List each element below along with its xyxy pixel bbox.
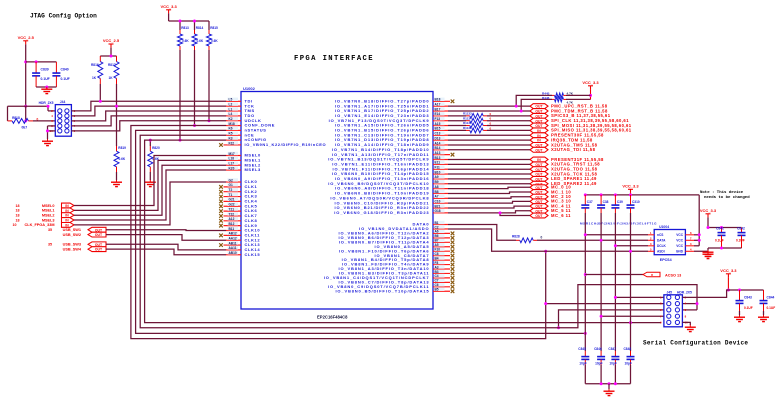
svg-text:A3: A3: [435, 265, 439, 269]
svg-text:0.1UF: 0.1UF: [767, 306, 776, 310]
svg-text:18: 18: [16, 204, 20, 208]
svg-text:DCLK: DCLK: [657, 244, 667, 248]
svg-text:VCC_3.3: VCC_3.3: [160, 4, 177, 9]
svg-text:C845: C845: [578, 347, 586, 351]
svg-text:B1: B1: [435, 221, 439, 225]
svg-text:B10: B10: [435, 170, 441, 174]
svg-text:R819: R819: [118, 146, 126, 150]
svg-text:R828: R828: [512, 234, 520, 238]
svg-text:A13: A13: [435, 151, 441, 155]
svg-text:4.7K: 4.7K: [567, 100, 574, 104]
svg-text:J45: J45: [667, 290, 673, 294]
svg-text:R818: R818: [12, 116, 20, 120]
svg-text:0E7: 0E7: [22, 126, 28, 130]
svg-text:B3: B3: [435, 270, 439, 274]
svg-text:C39: C39: [617, 200, 623, 204]
svg-text:MSEL2: MSEL2: [42, 214, 55, 218]
svg-text:X2UTAG_TDI 11,58: X2UTAG_TDI 11,58: [551, 147, 596, 152]
svg-text:B4: B4: [435, 256, 439, 260]
svg-text:0.1UF: 0.1UF: [736, 239, 745, 243]
svg-text:0.6K: 0.6K: [182, 39, 189, 43]
svg-text:Note : This device: Note : This device: [700, 190, 744, 195]
svg-text:R: R: [651, 273, 653, 277]
svg-text:F11: F11: [435, 166, 441, 170]
svg-text:B18: B18: [435, 98, 441, 102]
svg-text:C8: C8: [435, 252, 439, 256]
svg-text:35: 35: [48, 243, 52, 247]
svg-text:C840: C840: [61, 68, 69, 72]
svg-text:JTAG Config Option: JTAG Config Option: [30, 13, 97, 20]
svg-text:B21: B21: [435, 204, 441, 208]
svg-text:R816: R816: [91, 63, 99, 67]
svg-text:R445: R445: [542, 92, 550, 96]
svg-text:IO_VB9N1_K22/DIFFIO_R19/nCEO: IO_VB9N1_K22/DIFFIO_R19/nCEO: [245, 142, 327, 147]
svg-text:T2: T2: [229, 188, 233, 192]
svg-text:K3: K3: [229, 136, 233, 140]
svg-text:VCC_3.3: VCC_3.3: [700, 208, 717, 213]
svg-text:18: 18: [16, 214, 20, 218]
svg-text:Serial Configuration Device: Serial Configuration Device: [643, 340, 748, 347]
svg-text:B6: B6: [435, 234, 439, 238]
svg-text:C844: C844: [767, 296, 775, 300]
svg-text:C848: C848: [624, 347, 632, 351]
svg-text:10: 10: [13, 223, 17, 227]
svg-text:FPGA INTERFACE: FPGA INTERFACE: [294, 55, 374, 63]
svg-text:HDR_2X5: HDR_2X5: [677, 290, 692, 294]
svg-text:CLK_FPGA_33M: CLK_FPGA_33M: [25, 223, 55, 227]
svg-text:OUT: OUT: [95, 248, 103, 252]
svg-text:C10: C10: [435, 199, 441, 203]
svg-text:B13: B13: [435, 156, 441, 160]
svg-text:B5: B5: [435, 288, 439, 292]
svg-text:C4: C4: [435, 274, 439, 278]
svg-text:MSEL1: MSEL1: [42, 209, 55, 213]
svg-text:A7: A7: [435, 195, 439, 199]
svg-text:VCC: VCC: [676, 239, 683, 243]
svg-text:USB_SW2: USB_SW2: [63, 233, 81, 237]
svg-text:MC_6 11: MC_6 11: [551, 213, 571, 218]
svg-text:L18: L18: [229, 157, 235, 161]
svg-text:C2: C2: [435, 225, 439, 229]
svg-text:C841: C841: [716, 227, 724, 231]
svg-text:B8: B8: [435, 190, 439, 194]
svg-text:C842: C842: [737, 227, 745, 231]
svg-text:C6: C6: [435, 283, 439, 287]
svg-text:OUT: OUT: [95, 233, 103, 237]
svg-text:R820: R820: [152, 146, 160, 150]
svg-text:USB_SW3: USB_SW3: [63, 243, 81, 247]
svg-text:B17: B17: [435, 107, 441, 111]
svg-text:0: 0: [541, 235, 543, 239]
svg-text:nCS: nCS: [657, 233, 663, 237]
svg-text:HDR_2X5: HDR_2X5: [39, 101, 54, 105]
svg-text:B12: B12: [229, 222, 235, 226]
svg-text:D13: D13: [435, 136, 441, 140]
svg-text:EP2C16F484C8: EP2C16F484C8: [317, 315, 348, 320]
svg-text:C847: C847: [608, 347, 616, 351]
svg-text:R814: R814: [196, 26, 204, 30]
svg-text:G2: G2: [229, 178, 233, 182]
svg-text:MSEL0: MSEL0: [42, 204, 55, 208]
svg-text:B11: B11: [229, 227, 235, 231]
svg-text:OUT: OUT: [535, 148, 543, 152]
svg-text:J44: J44: [60, 100, 66, 104]
svg-text:0.1UF: 0.1UF: [744, 306, 753, 310]
svg-text:0.6K: 0.6K: [119, 157, 126, 161]
svg-text:AB12: AB12: [229, 232, 237, 236]
svg-text:10pF: 10pF: [625, 362, 632, 366]
svg-text:G21: G21: [229, 198, 235, 202]
svg-text:10pF: 10pF: [595, 362, 602, 366]
svg-text:1K: 1K: [109, 76, 114, 80]
svg-text:VCC_2.5: VCC_2.5: [18, 35, 35, 40]
svg-text:K5: K5: [229, 132, 233, 136]
svg-text:MSEL3: MSEL3: [245, 167, 262, 172]
svg-text:0.6K: 0.6K: [211, 39, 218, 43]
svg-text:C846: C846: [594, 347, 602, 351]
svg-text:IO_VB6N0_G18/DIFFIO_R3n/PADD23: IO_VB6N0_G18/DIFFIO_R3n/PADD23: [334, 210, 429, 215]
svg-text:0.1UF: 0.1UF: [715, 239, 724, 243]
svg-text:VCC: VCC: [676, 233, 683, 237]
svg-text:R1135: R1135: [463, 121, 472, 125]
svg-text:B9: B9: [435, 180, 439, 184]
svg-text:R1136: R1136: [463, 126, 472, 130]
svg-text:R1134: R1134: [463, 116, 472, 120]
svg-text:AB11: AB11: [229, 241, 237, 245]
svg-text:T22: T22: [229, 212, 235, 216]
svg-text:18: 18: [16, 218, 20, 222]
svg-text:R446: R446: [542, 96, 550, 100]
svg-text:OUT: OUT: [95, 243, 103, 247]
svg-text:U1002: U1002: [243, 86, 256, 91]
svg-text:A12: A12: [229, 217, 235, 221]
svg-text:A9: A9: [435, 175, 439, 179]
svg-text:ACSO 13: ACSO 13: [665, 273, 681, 277]
svg-text:T1: T1: [229, 193, 233, 197]
svg-text:EPCS4: EPCS4: [660, 258, 672, 262]
svg-text:MSEL3: MSEL3: [42, 218, 55, 222]
svg-text:F13: F13: [435, 117, 441, 121]
svg-text:B15: B15: [435, 127, 441, 131]
svg-text:F8: F8: [435, 261, 439, 265]
svg-text:A17: A17: [435, 102, 441, 106]
svg-text:G22: G22: [229, 203, 235, 207]
svg-text:A15: A15: [435, 122, 441, 126]
svg-text:35: 35: [48, 228, 52, 232]
svg-text:E14: E14: [435, 112, 441, 116]
svg-text:R813: R813: [181, 26, 189, 30]
svg-text:MSR1CH(BF(3N3/BF(3N3/BF(3EL9FT: MSR1CH(BF(3N3/BF(3N3/BF(3EL9FT1G: [580, 222, 657, 226]
svg-text:M17: M17: [229, 152, 235, 156]
svg-text:CLK15: CLK15: [245, 252, 261, 257]
svg-text:C839: C839: [41, 68, 49, 72]
svg-text:AB10: AB10: [229, 251, 237, 255]
svg-text:C843: C843: [744, 296, 752, 300]
svg-text:F10: F10: [435, 248, 441, 252]
svg-text:VCC_3.3: VCC_3.3: [720, 268, 737, 273]
svg-text:U1004: U1004: [659, 225, 669, 229]
svg-text:L2: L2: [229, 102, 233, 106]
svg-text:G18: G18: [435, 209, 441, 213]
svg-text:USB_SW1: USB_SW1: [63, 228, 81, 232]
svg-text:GND: GND: [676, 250, 684, 254]
svg-text:VCC_3.3: VCC_3.3: [622, 184, 639, 189]
svg-text:C7: C7: [435, 279, 439, 283]
svg-text:L4: L4: [229, 112, 233, 116]
svg-text:A5: A5: [435, 243, 439, 247]
svg-text:C38: C38: [603, 200, 609, 204]
svg-text:R1133: R1133: [463, 111, 472, 115]
svg-text:A6: A6: [435, 230, 439, 234]
svg-text:VCC_2.5: VCC_2.5: [103, 38, 120, 43]
svg-text:L5: L5: [229, 98, 233, 102]
svg-text:0.1UF: 0.1UF: [41, 77, 50, 81]
svg-text:C13: C13: [435, 132, 441, 136]
svg-text:AA11: AA11: [229, 246, 237, 250]
svg-text:K2: K2: [229, 117, 233, 121]
svg-text:C37: C37: [587, 200, 593, 204]
svg-text:needs to be changed: needs to be changed: [704, 195, 750, 200]
svg-text:18: 18: [16, 209, 20, 213]
svg-text:B7: B7: [435, 239, 439, 243]
svg-text:0.1UF: 0.1UF: [61, 77, 70, 81]
svg-text:VCC: VCC: [676, 244, 683, 248]
svg-text:DATA: DATA: [657, 239, 666, 243]
svg-text:4.7K: 4.7K: [567, 92, 574, 96]
svg-text:10pF: 10pF: [609, 362, 616, 366]
svg-text:10pF: 10pF: [579, 362, 586, 366]
svg-text:OUT: OUT: [535, 214, 543, 218]
svg-text:0.6K: 0.6K: [197, 39, 204, 43]
svg-text:OUT: OUT: [95, 228, 103, 232]
svg-text:R815: R815: [210, 26, 218, 30]
svg-text:VCC_3.3: VCC_3.3: [582, 80, 599, 85]
svg-text:F22: F22: [229, 141, 235, 145]
svg-text:C310: C310: [632, 200, 640, 204]
svg-text:L1: L1: [229, 107, 233, 111]
svg-text:IO_VB8N0_B5/DIFFIO_T10p/DATA15: IO_VB8N0_B5/DIFFIO_T10p/DATA15: [335, 288, 429, 293]
svg-text:T21: T21: [229, 207, 235, 211]
svg-text:1K: 1K: [92, 76, 97, 80]
svg-text:E11: E11: [435, 161, 441, 165]
svg-text:USB_SW4: USB_SW4: [63, 247, 82, 251]
svg-text:K20: K20: [229, 166, 235, 170]
svg-text:A8: A8: [435, 185, 439, 189]
svg-text:G1: G1: [229, 183, 233, 187]
svg-text:K6: K6: [229, 127, 233, 131]
svg-text:AA12: AA12: [229, 237, 237, 241]
svg-text:B14: B14: [435, 146, 441, 150]
svg-text:ASDI: ASDI: [657, 250, 665, 254]
svg-text:A14: A14: [435, 141, 441, 145]
svg-text:L17: L17: [229, 162, 235, 166]
svg-text:M18: M18: [229, 122, 235, 126]
